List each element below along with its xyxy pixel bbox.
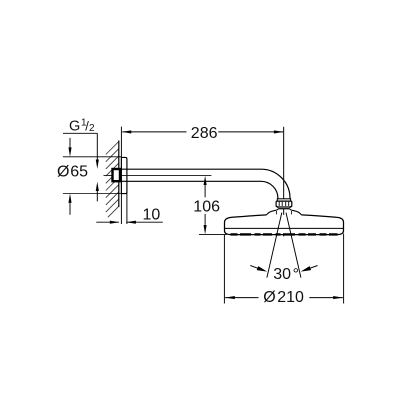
dimension G1/2 leader <box>63 132 97 134</box>
cone ticks <box>275 211 277 214</box>
dimension 286 <box>122 131 283 133</box>
G1/2 thread stub (bold) <box>113 169 121 181</box>
svg-text:Ø210: Ø210 <box>263 289 304 306</box>
svg-text:30°: 30° <box>273 266 299 283</box>
escutcheon flange <box>121 157 127 193</box>
shower arm straight pipe <box>120 168 261 170</box>
nut knurling <box>279 202 289 207</box>
svg-text:G: G <box>69 118 80 134</box>
pipe center line <box>104 174 212 176</box>
dimension 106 <box>204 176 207 185</box>
head axis center line <box>283 127 285 216</box>
dimension Ø65 extension lines <box>63 156 122 158</box>
nut bevel <box>277 207 292 208</box>
svg-text:286: 286 <box>191 125 218 142</box>
shower head outline <box>225 215 344 235</box>
wall line <box>118 141 120 208</box>
extension line: flange front (right end of 10) <box>126 160 128 224</box>
gasket <box>278 208 290 210</box>
dimension Ø65 <box>69 138 71 148</box>
shower arm elbow <box>261 169 290 199</box>
svg-text:Ø65: Ø65 <box>57 164 88 181</box>
head seam line <box>225 227 344 229</box>
dimension Ø210 <box>225 297 258 299</box>
svg-text:2: 2 <box>89 123 95 134</box>
dimension 30° arrows <box>250 266 258 269</box>
wall hatching <box>106 142 119 218</box>
extension line: wall face (left end of 286 and 10) <box>120 127 122 224</box>
connector ring <box>277 199 290 201</box>
union nut <box>276 201 292 207</box>
svg-text:10: 10 <box>143 207 161 224</box>
mounting cone <box>267 209 279 215</box>
shower head body fill <box>225 215 344 235</box>
spray angle legs <box>267 213 282 278</box>
dimension 10 <box>96 221 119 223</box>
svg-text:106: 106 <box>193 199 220 216</box>
dimension Ø210 extension lines <box>223 235 225 304</box>
nozzle face bold dashes <box>231 233 338 235</box>
